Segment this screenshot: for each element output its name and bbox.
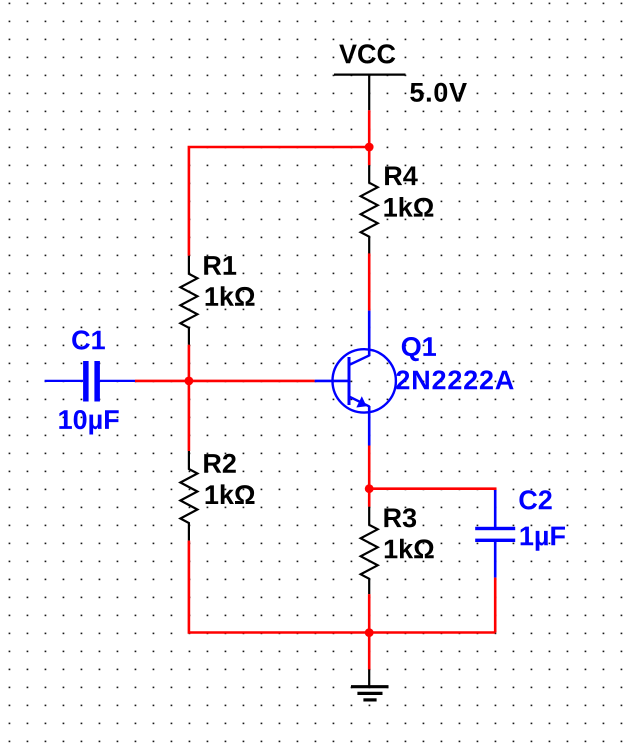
junction bottom rail node [365, 628, 374, 637]
wire bottom junction to ground [368, 633, 371, 670]
power VCC [334, 75, 406, 111]
resistor R4 [361, 165, 378, 253]
wire R3 to bottom rail [368, 594, 371, 632]
wire R1 to base node to R2 [188, 345, 191, 451]
junction base node [185, 377, 194, 386]
label R3 value 1kΩ [385, 539, 434, 559]
label R4 [385, 167, 418, 186]
wire emitter to R3 [368, 446, 371, 507]
wire top rail R1 to VCC column [189, 147, 369, 256]
label R2 [204, 454, 236, 473]
ground [351, 669, 389, 700]
wire R4 to collector [368, 253, 371, 310]
label 5.0V [410, 83, 467, 102]
label R4 value 1kΩ [384, 197, 433, 217]
label VCC [339, 44, 395, 63]
resistor R3 [361, 507, 378, 594]
label Q1 [402, 337, 436, 361]
label R1 value 1kΩ [206, 286, 255, 306]
label Q1 part 2N2222A [396, 370, 513, 389]
junction emitter node [365, 484, 374, 493]
wire VCC pin to R4 [368, 110, 371, 165]
wire C2 bottom to bottom rail [494, 578, 497, 633]
label C1 value 10µF [59, 410, 118, 435]
capacitor C1 [45, 361, 135, 402]
label C1 [72, 330, 105, 349]
label R3 [384, 508, 416, 527]
transistor Q1 [315, 311, 396, 446]
wire emitter node to C2 top [369, 489, 495, 492]
wire bottom rail [189, 541, 495, 633]
label R1 [204, 256, 236, 275]
resistor R1 [180, 256, 197, 345]
junction top rail node [365, 143, 374, 152]
label C2 value 1µF [521, 527, 565, 551]
label R2 value 1kΩ [206, 484, 255, 504]
resistor R2 [180, 451, 197, 541]
label C2 [519, 490, 551, 509]
wire C1 to base [135, 380, 315, 383]
capacitor C2 [475, 490, 515, 578]
